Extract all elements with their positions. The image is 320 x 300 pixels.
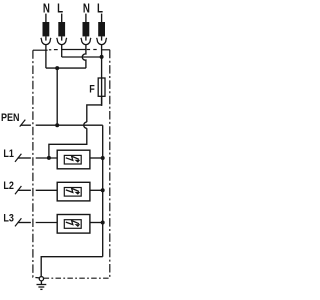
terminal N3 pin stub [85,36,87,40]
arrester symbol frame L1 [64,155,81,164]
pin of terminal N1 [45,45,47,68]
pin of terminal N2 with hop over bus [82,45,86,68]
terminal N1 block [43,22,50,36]
L1 wire box to PE vertical [90,157,103,159]
enclosure right border (dash-dot) [109,50,111,278]
junction dot L1/PE vertical [101,156,105,160]
lightning arrow L3 [66,221,79,225]
PE bottom wire [41,257,102,277]
surge arrester module box L1 [57,150,90,169]
L1 wire left part [18,157,31,159]
surge arrester module box L2 [57,182,90,201]
fuse output wire [87,96,102,122]
L2 wire box to PE vertical [90,189,103,191]
svg-text:L2: L2 [3,180,14,192]
junction dot L3/PE vertical [101,221,105,225]
L1 wire to box [36,157,58,159]
L3 wire box to PE vertical [90,222,103,224]
L3 wire left part [18,222,31,224]
arrester symbol frame L3 [64,220,81,229]
surge arrester module box L3 [57,215,90,234]
PEN vertical (right side) [102,125,104,257]
terminal N3 block [83,22,90,36]
terminal L4 pin stub [101,36,103,40]
terminal N3 lead wire [85,14,87,23]
PE terminal circle [39,277,43,281]
terminal N1 socket cup [41,38,51,45]
terminal N1 lead wire [45,14,47,23]
L3 wire to box [36,222,58,224]
wire T2-T3 along border [62,49,86,51]
terminal N1 pin stub [45,36,47,40]
enclosure left border (dash-dot) [33,50,39,278]
L2 wire to box [36,189,58,191]
PEN slash [20,120,26,127]
bus wire L (y57) [62,56,102,58]
L1 slash [15,154,21,162]
svg-text:F: F [89,84,95,96]
terminal L4 lead wire [101,14,103,23]
ground bar 3 [40,288,42,290]
terminal L4 block [98,22,105,36]
svg-text:L3: L3 [3,213,14,225]
N vertical wire [56,68,58,125]
terminal L2 socket cup [57,38,67,45]
ground bar 1 [37,284,47,286]
terminal L4 socket cup [97,38,107,45]
L2 wire left part [18,189,31,191]
fuse wire to L1 feed [49,128,87,158]
L2 slash [15,186,21,194]
junction dot PEN/N [55,123,59,127]
lightning arrow L2 [66,188,79,192]
terminal L2 lead wire [61,14,63,23]
arrester symbol frame L2 [64,188,81,197]
hop over PEN wire [84,122,87,128]
svg-text:PEN: PEN [1,112,20,124]
junction dot L1 feed [47,156,51,160]
lightning arrow L1 [66,156,79,160]
terminal L2 block [58,22,65,36]
PEN wire left part [21,124,31,126]
junction dot N wire [55,66,59,70]
wire N (y68) [46,67,86,69]
svg-text:L1: L1 [3,148,14,160]
ground bar 2 [38,286,44,288]
ground stub [40,281,42,284]
PEN wire right part to corner [36,124,103,126]
enclosure top border segment D [102,49,110,51]
enclosure top border dashes C [87,49,90,51]
junction dot L2/PE vertical [101,188,105,192]
terminal L2 pin stub [61,36,63,40]
fuse F body [98,78,105,96]
terminal N3 socket cup [81,38,91,45]
junction dot bus/fuse [100,55,104,59]
pin of terminal L2t down through fuse [101,45,103,106]
enclosure bottom border (dash-dot) [44,277,110,279]
pin of terminal L1t [61,45,63,57]
enclosure top border dashes B [49,49,51,51]
enclosure top border segment A [33,49,48,51]
L3 slash [15,218,21,226]
